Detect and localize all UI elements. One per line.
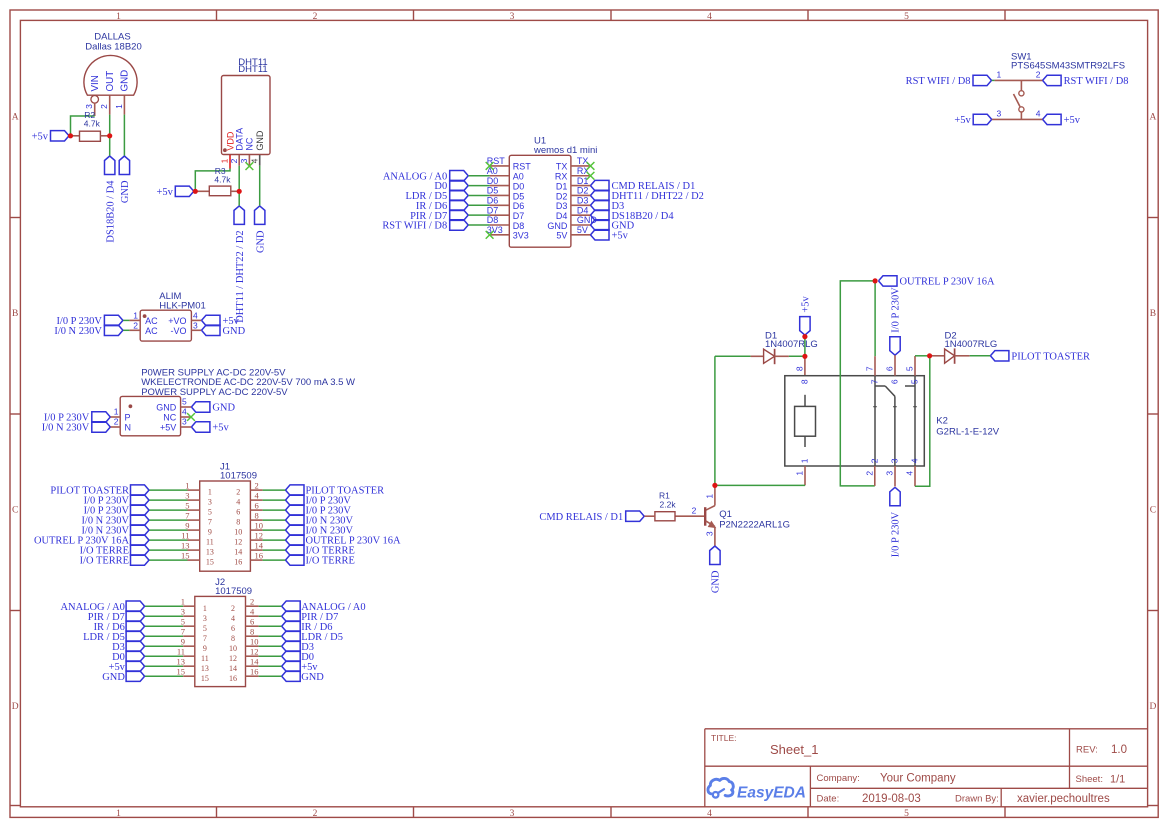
svg-text:3: 3 — [239, 158, 249, 163]
svg-text:16: 16 — [250, 667, 259, 677]
svg-text:1017509: 1017509 — [220, 471, 257, 482]
svg-text:+5v: +5v — [954, 115, 971, 126]
svg-text:NC: NC — [163, 412, 176, 422]
svg-text:8: 8 — [800, 379, 810, 384]
svg-text:1: 1 — [800, 458, 810, 463]
svg-text:4.7k: 4.7k — [214, 174, 231, 184]
svg-text:D4: D4 — [556, 211, 568, 221]
svg-text:10: 10 — [255, 521, 264, 531]
svg-text:+5v: +5v — [612, 230, 629, 241]
svg-text:D3: D3 — [577, 196, 589, 206]
svg-text:REV:: REV: — [1076, 745, 1098, 756]
svg-text:4: 4 — [193, 311, 198, 321]
svg-text:1: 1 — [208, 488, 212, 497]
svg-text:wemos d1 mini: wemos d1 mini — [533, 145, 597, 156]
svg-text:4: 4 — [910, 458, 920, 463]
svg-text:2: 2 — [313, 12, 318, 22]
svg-text:5: 5 — [905, 366, 915, 371]
svg-text:GND: GND — [156, 403, 177, 413]
svg-text:D7: D7 — [513, 211, 525, 221]
svg-text:DHT11: DHT11 — [238, 64, 267, 75]
svg-text:4: 4 — [255, 491, 260, 501]
svg-text:4: 4 — [905, 471, 915, 476]
svg-text:1: 1 — [185, 481, 189, 491]
svg-text:7: 7 — [865, 366, 875, 371]
svg-text:3: 3 — [181, 607, 185, 617]
svg-text:D0: D0 — [487, 176, 499, 186]
svg-text:8: 8 — [236, 518, 240, 527]
svg-text:1.0: 1.0 — [1111, 744, 1127, 756]
svg-text:3: 3 — [510, 809, 515, 819]
svg-text:GND: GND — [212, 403, 235, 414]
svg-text:6: 6 — [890, 379, 900, 384]
svg-text:4: 4 — [236, 498, 240, 507]
svg-text:D6: D6 — [513, 201, 525, 211]
svg-text:1: 1 — [116, 809, 121, 819]
svg-text:GND: GND — [301, 672, 324, 683]
svg-text:7: 7 — [208, 518, 212, 527]
svg-text:2: 2 — [231, 604, 235, 613]
svg-text:D6: D6 — [487, 196, 499, 206]
svg-text:GND: GND — [223, 326, 246, 337]
svg-text:2: 2 — [236, 488, 240, 497]
svg-text:12: 12 — [229, 654, 237, 663]
svg-text:2.2k: 2.2k — [660, 500, 677, 510]
svg-text:A0: A0 — [513, 172, 524, 182]
svg-text:2: 2 — [133, 321, 138, 331]
svg-text:4: 4 — [231, 614, 235, 623]
svg-text:-VO: -VO — [170, 326, 186, 336]
svg-text:C: C — [1150, 505, 1156, 515]
svg-text:xavier.pechoultres: xavier.pechoultres — [1017, 793, 1110, 805]
svg-text:14: 14 — [229, 664, 237, 673]
svg-text:+5v: +5v — [801, 295, 812, 312]
svg-text:10: 10 — [250, 637, 259, 647]
svg-text:D5: D5 — [513, 191, 525, 201]
svg-text:4: 4 — [707, 809, 712, 819]
svg-text:GND: GND — [102, 672, 125, 683]
svg-text:2: 2 — [255, 481, 259, 491]
svg-text:6: 6 — [885, 366, 895, 371]
svg-text:D8: D8 — [487, 215, 499, 225]
svg-text:9: 9 — [181, 637, 185, 647]
svg-text:+5v: +5v — [1064, 115, 1081, 126]
svg-text:GND: GND — [120, 180, 131, 203]
svg-text:GND: GND — [255, 130, 265, 151]
svg-text:I/0 P 230V: I/0 P 230V — [891, 511, 902, 557]
svg-text:I/O TERRE: I/O TERRE — [80, 556, 129, 567]
svg-text:14: 14 — [234, 548, 242, 557]
svg-text:10: 10 — [229, 644, 237, 653]
svg-text:2019-08-03: 2019-08-03 — [862, 793, 921, 805]
svg-text:5V: 5V — [577, 225, 588, 235]
svg-text:3: 3 — [193, 321, 198, 331]
svg-text:A: A — [12, 112, 19, 122]
svg-text:3: 3 — [185, 491, 189, 501]
svg-text:1N4007RLG: 1N4007RLG — [945, 339, 998, 350]
svg-text:7: 7 — [203, 634, 207, 643]
svg-text:+5v: +5v — [156, 187, 173, 198]
svg-text:Your Company: Your Company — [880, 773, 956, 785]
svg-text:GND: GND — [255, 230, 266, 253]
svg-text:D0: D0 — [513, 181, 525, 191]
svg-text:16: 16 — [234, 558, 242, 567]
svg-text:D: D — [12, 702, 19, 712]
svg-text:RX: RX — [555, 172, 568, 182]
svg-text:2: 2 — [313, 809, 318, 819]
svg-text:4.7k: 4.7k — [84, 119, 101, 129]
svg-text:3: 3 — [890, 458, 900, 463]
svg-text:4: 4 — [250, 607, 255, 617]
svg-text:VIN: VIN — [90, 75, 101, 91]
svg-text:1: 1 — [997, 70, 1002, 80]
svg-text:3: 3 — [208, 498, 212, 507]
svg-text:D7: D7 — [487, 205, 499, 215]
svg-text:RST: RST — [513, 162, 532, 172]
svg-text:3: 3 — [997, 109, 1002, 119]
svg-text:15: 15 — [181, 551, 190, 561]
svg-text:4: 4 — [249, 158, 259, 163]
svg-text:PILOT TOASTER: PILOT TOASTER — [1011, 351, 1090, 362]
svg-text:OUTREL P 230V 16A: OUTREL P 230V 16A — [900, 277, 995, 288]
svg-text:AC: AC — [145, 326, 158, 336]
svg-text:Sheet:: Sheet: — [1076, 774, 1103, 785]
svg-text:RST: RST — [487, 156, 506, 166]
svg-text:14: 14 — [250, 657, 259, 667]
svg-text:15: 15 — [206, 558, 214, 567]
svg-text:6: 6 — [236, 508, 240, 517]
svg-text:GND: GND — [547, 221, 568, 231]
svg-text:G2RL-1-E-12V: G2RL-1-E-12V — [936, 426, 999, 437]
svg-text:RST WIFI / D8: RST WIFI / D8 — [906, 76, 971, 87]
svg-text:DS18B20 / D4: DS18B20 / D4 — [105, 180, 116, 243]
svg-text:5: 5 — [181, 617, 185, 627]
svg-text:12: 12 — [234, 538, 242, 547]
svg-text:14: 14 — [255, 541, 264, 551]
svg-text:1: 1 — [795, 471, 805, 476]
svg-text:4: 4 — [707, 12, 712, 22]
svg-text:D1: D1 — [556, 181, 568, 191]
svg-text:I/0 N 230V: I/0 N 230V — [54, 326, 102, 337]
svg-text:2: 2 — [250, 597, 254, 607]
svg-text:I/0 N 230V: I/0 N 230V — [42, 423, 90, 434]
svg-text:DATA: DATA — [235, 128, 245, 151]
svg-text:4: 4 — [1036, 109, 1041, 119]
svg-text:4: 4 — [182, 407, 187, 417]
svg-text:Company:: Company: — [817, 773, 860, 784]
svg-text:DHT11 / DHT22 / D2: DHT11 / DHT22 / D2 — [612, 191, 704, 202]
svg-text:5: 5 — [904, 809, 909, 819]
svg-text:PTS645SM43SMTR92LFS: PTS645SM43SMTR92LFS — [1011, 60, 1125, 71]
svg-text:13: 13 — [206, 548, 214, 557]
svg-text:1: 1 — [116, 12, 121, 22]
svg-text:2: 2 — [864, 471, 874, 476]
svg-text:16: 16 — [255, 551, 264, 561]
svg-text:2: 2 — [1036, 70, 1041, 80]
svg-text:1N4007RLG: 1N4007RLG — [765, 339, 818, 350]
svg-text:D2: D2 — [577, 186, 589, 196]
svg-text:10: 10 — [234, 528, 242, 537]
svg-text:A: A — [1149, 112, 1156, 122]
svg-text:3: 3 — [704, 531, 714, 536]
svg-text:1: 1 — [114, 407, 119, 417]
svg-text:9: 9 — [185, 521, 189, 531]
svg-text:5: 5 — [208, 508, 212, 517]
svg-text:12: 12 — [250, 647, 259, 657]
svg-text:B: B — [12, 309, 18, 319]
svg-text:3: 3 — [203, 614, 207, 623]
svg-text:11: 11 — [206, 538, 214, 547]
svg-text:3: 3 — [510, 12, 515, 22]
svg-text:RX: RX — [577, 166, 590, 176]
svg-text:11: 11 — [181, 531, 189, 541]
svg-text:1: 1 — [704, 494, 714, 499]
svg-text:EasyEDA: EasyEDA — [737, 785, 806, 802]
svg-text:1: 1 — [181, 597, 185, 607]
svg-text:1: 1 — [203, 604, 207, 613]
svg-text:5: 5 — [185, 501, 189, 511]
svg-text:+5v: +5v — [32, 131, 49, 142]
svg-text:D1: D1 — [577, 176, 589, 186]
svg-text:15: 15 — [177, 667, 186, 677]
svg-text:12: 12 — [255, 531, 264, 541]
svg-text:DHT11 / DHT22 / D2: DHT11 / DHT22 / D2 — [235, 230, 246, 322]
svg-text:D4: D4 — [577, 205, 589, 215]
svg-text:8: 8 — [794, 366, 804, 371]
svg-text:3: 3 — [84, 104, 94, 109]
svg-text:1: 1 — [133, 311, 138, 321]
svg-text:GND: GND — [711, 570, 722, 593]
svg-text:AC: AC — [145, 316, 158, 326]
svg-text:13: 13 — [201, 664, 209, 673]
svg-text:8: 8 — [250, 627, 254, 637]
svg-text:5: 5 — [904, 12, 909, 22]
svg-text:K2: K2 — [936, 416, 948, 427]
svg-text:5: 5 — [910, 379, 920, 384]
svg-text:5: 5 — [182, 397, 187, 407]
svg-text:Drawn By:: Drawn By: — [955, 794, 999, 805]
svg-text:13: 13 — [177, 657, 186, 667]
svg-text:Date:: Date: — [817, 794, 840, 805]
svg-text:11: 11 — [177, 647, 185, 657]
svg-text:3: 3 — [885, 471, 895, 476]
svg-text:5V: 5V — [556, 231, 567, 241]
svg-text:CMD RELAIS / D1: CMD RELAIS / D1 — [539, 512, 623, 523]
svg-text:7: 7 — [870, 379, 880, 384]
svg-text:TX: TX — [556, 162, 568, 172]
svg-text:Q1: Q1 — [719, 509, 732, 520]
svg-text:+5V: +5V — [160, 422, 176, 432]
svg-text:I/O TERRE: I/O TERRE — [306, 556, 355, 567]
svg-text:P: P — [125, 413, 131, 423]
svg-text:2: 2 — [692, 505, 697, 515]
svg-text:TITLE:: TITLE: — [711, 733, 737, 743]
svg-text:6: 6 — [255, 501, 259, 511]
svg-text:N: N — [125, 423, 132, 433]
svg-text:B: B — [1150, 309, 1156, 319]
svg-text:5: 5 — [203, 624, 207, 633]
svg-text:D5: D5 — [487, 186, 499, 196]
svg-text:RST WIFI / D8: RST WIFI / D8 — [1064, 76, 1129, 87]
svg-text:GND: GND — [120, 70, 131, 92]
svg-text:+5v: +5v — [212, 423, 229, 434]
svg-text:Sheet_1: Sheet_1 — [770, 742, 818, 757]
svg-text:9: 9 — [208, 528, 212, 537]
svg-text:+VO: +VO — [168, 316, 186, 326]
svg-text:7: 7 — [181, 627, 185, 637]
svg-text:RST WIFI / D8: RST WIFI / D8 — [382, 221, 447, 232]
svg-text:7: 7 — [185, 511, 189, 521]
svg-text:16: 16 — [229, 674, 237, 683]
svg-text:6: 6 — [250, 617, 254, 627]
svg-text:2: 2 — [114, 417, 119, 427]
svg-text:C: C — [12, 505, 18, 515]
svg-text:3V3: 3V3 — [513, 231, 529, 241]
svg-text:I/0 P 230V: I/0 P 230V — [891, 287, 902, 333]
svg-text:3: 3 — [182, 417, 187, 427]
svg-text:NC: NC — [245, 137, 255, 150]
svg-text:2: 2 — [99, 104, 109, 109]
svg-text:8: 8 — [231, 634, 235, 643]
svg-text:TX: TX — [577, 156, 589, 166]
svg-text:P2N2222ARL1G: P2N2222ARL1G — [719, 520, 790, 531]
svg-text:D8: D8 — [513, 221, 525, 231]
svg-text:1017509: 1017509 — [215, 586, 252, 597]
svg-text:1/1: 1/1 — [1110, 774, 1125, 786]
svg-text:2: 2 — [869, 458, 879, 463]
svg-text:6: 6 — [231, 624, 235, 633]
svg-text:15: 15 — [201, 674, 209, 683]
svg-text:D3: D3 — [556, 201, 568, 211]
svg-text:8: 8 — [255, 511, 259, 521]
svg-text:D: D — [1149, 702, 1156, 712]
svg-text:9: 9 — [203, 644, 207, 653]
svg-text:11: 11 — [201, 654, 209, 663]
svg-text:13: 13 — [181, 541, 190, 551]
svg-text:1: 1 — [114, 104, 124, 109]
svg-text:OUT: OUT — [105, 71, 116, 92]
svg-text:D2: D2 — [556, 191, 568, 201]
svg-text:Dallas 18B20: Dallas 18B20 — [85, 42, 142, 53]
